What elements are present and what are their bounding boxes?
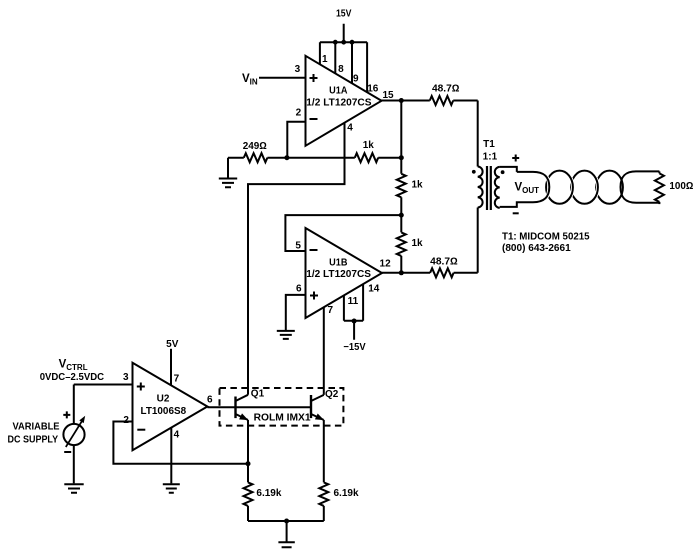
svg-text:ROLM IMX1: ROLM IMX1: [254, 413, 311, 424]
svg-text:LT1006S8: LT1006S8: [141, 406, 187, 417]
svg-text:DC SUPPLY: DC SUPPLY: [8, 434, 59, 445]
svg-text:VARIABLE: VARIABLE: [12, 421, 59, 432]
svg-text:1/2 LT1207CS: 1/2 LT1207CS: [306, 98, 372, 109]
svg-text:6: 6: [207, 394, 213, 405]
svg-text:14: 14: [368, 283, 380, 294]
svg-text:0VDC–2.5VDC: 0VDC–2.5VDC: [40, 372, 104, 383]
svg-text:48.7Ω: 48.7Ω: [432, 83, 460, 94]
svg-text:1: 1: [322, 54, 328, 65]
svg-text:(800) 643-2661: (800) 643-2661: [502, 243, 571, 254]
svg-text:Q2: Q2: [325, 389, 339, 400]
svg-text:249Ω: 249Ω: [243, 141, 268, 152]
svg-text:4: 4: [174, 429, 180, 440]
svg-text:−15V: −15V: [343, 342, 366, 353]
svg-text:T1: T1: [483, 139, 495, 150]
svg-text:5: 5: [295, 241, 301, 252]
svg-text:Q1: Q1: [251, 389, 265, 400]
svg-text:1k: 1k: [412, 180, 424, 191]
svg-text:16: 16: [367, 84, 379, 95]
svg-text:11: 11: [348, 296, 359, 307]
svg-text:1k: 1k: [363, 140, 375, 151]
svg-text:15V: 15V: [336, 8, 352, 19]
svg-text:T1: MIDCOM 50215: T1: MIDCOM 50215: [502, 231, 590, 242]
svg-text:U2: U2: [157, 394, 170, 405]
svg-text:100Ω: 100Ω: [669, 181, 693, 192]
svg-text:2: 2: [296, 108, 302, 119]
svg-text:1:1: 1:1: [483, 152, 498, 163]
svg-text:1k: 1k: [412, 238, 424, 249]
svg-text:6: 6: [296, 284, 302, 295]
svg-text:7: 7: [174, 373, 180, 384]
svg-text:2: 2: [123, 415, 129, 426]
svg-text:U1B: U1B: [329, 257, 347, 268]
svg-text:5V: 5V: [166, 339, 179, 350]
svg-text:7: 7: [328, 305, 334, 316]
svg-text:4: 4: [347, 123, 353, 134]
svg-text:3: 3: [295, 64, 301, 75]
svg-text:8: 8: [338, 64, 344, 75]
svg-text:6.19k: 6.19k: [334, 488, 359, 499]
svg-text:U1A: U1A: [329, 86, 347, 97]
svg-text:15: 15: [382, 90, 394, 101]
svg-text:1/2 LT1207CS: 1/2 LT1207CS: [306, 269, 371, 280]
svg-text:3: 3: [123, 372, 129, 383]
svg-text:48.7Ω: 48.7Ω: [430, 257, 458, 268]
svg-text:9: 9: [353, 74, 359, 85]
svg-text:12: 12: [380, 259, 392, 270]
svg-text:6.19k: 6.19k: [256, 488, 281, 499]
